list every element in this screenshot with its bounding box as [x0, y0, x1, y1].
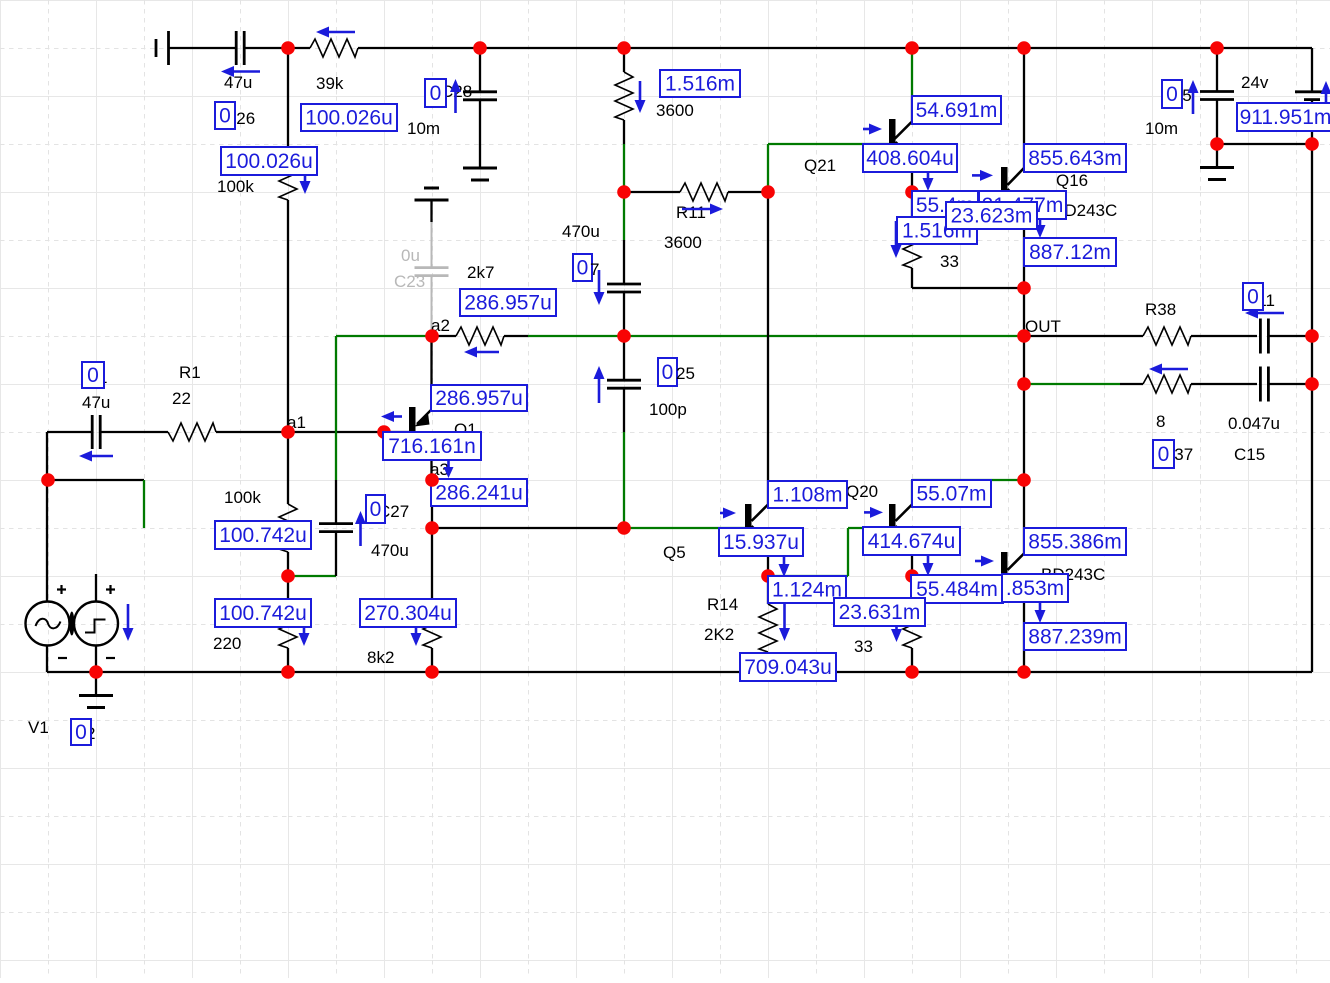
junction bottom rail / 8k2 [425, 665, 439, 679]
wire Q21 emitter to node [911, 158, 913, 192]
green wire stub [143, 480, 145, 528]
current arrow 270.304u 8k2 [411, 605, 422, 646]
transistor Q5 bar [745, 504, 752, 527]
resistor R37 8 body [1143, 375, 1191, 393]
battery B1 plates (input stub) [156, 31, 169, 65]
current arrow Q16 emitter [1035, 213, 1046, 238]
wire C5 node to battery node [1217, 143, 1312, 145]
measurement box 286.957u (2k7) [460, 289, 556, 316]
measurement box 0 of C27 [366, 495, 385, 523]
wire node to C28 [479, 48, 481, 92]
wire C11 to right rail [1269, 335, 1312, 337]
wire C7 bottom to node [623, 292, 625, 336]
green wire node down to Q21 collector [911, 48, 913, 97]
wire Q1 emitter up to node a2 [430, 336, 432, 409]
svg-text:0: 0 [1166, 83, 1178, 106]
wire node down to 8k2 [431, 528, 433, 600]
current arrow Q20 base [864, 507, 883, 518]
svg-text:0u: 0u [401, 246, 420, 265]
transistor Q20 collector diagonal [896, 505, 913, 522]
svg-text:2k7: 2k7 [467, 263, 494, 282]
svg-text:Q5: Q5 [663, 543, 686, 562]
wire 100k upper to node a1 [287, 200, 289, 432]
wire 33 upper lead [911, 268, 913, 288]
wire ground to C23 [430, 200, 432, 222]
wire node to R11 [624, 191, 680, 193]
svg-text:3600: 3600 [656, 101, 694, 120]
junction node 3600/R11 [617, 185, 631, 199]
transistor Q4 BD243C bar [1001, 552, 1008, 575]
measurement box 100.026u (100k) [221, 147, 317, 175]
wire node down to Q5 collector [767, 192, 769, 504]
resistor 100k upper body [279, 152, 297, 200]
measurement box 100.742u (100k) [215, 521, 311, 549]
wire a3 to node [431, 480, 433, 528]
junction Q21 emitter [905, 185, 919, 199]
svg-text:23.623m: 23.623m [951, 205, 1033, 228]
current arrow 33 lower [891, 605, 902, 642]
current arrow C28 [450, 79, 461, 113]
junction top rail / 3600 [617, 41, 631, 55]
green wire feedback long to OUT [624, 335, 1024, 337]
junction feedback / C7 [617, 329, 631, 343]
transistor Q21 bar [889, 119, 896, 143]
svg-text:855.643m: 855.643m [1028, 147, 1121, 170]
svg-text:470u: 470u [371, 541, 409, 560]
green wire node to C27 [288, 575, 336, 577]
junction top rail / 100k [281, 41, 295, 55]
overlap blob between V1 circles [69, 612, 74, 636]
node OUT [1017, 329, 1031, 343]
wire node to R14 [767, 576, 769, 604]
resistor R14 2K2 body [759, 604, 777, 652]
transistor Q16 emitter diagonal (hidden) [1008, 189, 1025, 206]
svg-text:55.07m: 55.07m [916, 483, 986, 506]
wire a2 to 2k7 [432, 335, 456, 337]
wire node to C25 top [623, 336, 625, 380]
junction Q5 base [617, 521, 631, 535]
wire 33 lower to bottom rail [911, 648, 913, 672]
green wire node down segment [623, 192, 625, 240]
svg-text:286.241u: 286.241u [435, 482, 523, 505]
wire 8k2 to bottom rail [431, 648, 433, 672]
current arrow Q21 emitter [923, 168, 934, 191]
transistor Q20 bar [889, 504, 896, 527]
svg-text:R14: R14 [707, 595, 738, 614]
measurement box 55.4m [912, 191, 978, 219]
svg-text:8: 8 [1156, 412, 1165, 431]
wire node to OUT node [1023, 288, 1025, 336]
svg-text:414.674u: 414.674u [868, 530, 956, 553]
current arrow input cap 47u [79, 451, 113, 462]
measurement box 709.043u [740, 653, 836, 681]
wire node to C5 [1216, 48, 1218, 92]
svg-text:8k2: 8k2 [367, 648, 394, 667]
green wire feedback vertical [335, 336, 337, 480]
svg-text:24v: 24v [1241, 73, 1269, 92]
wire C26 to node V+A [245, 47, 311, 49]
junction a1 [281, 425, 295, 439]
transistor Q20 emitter diagonal (hidden) [896, 526, 913, 542]
current arrow Q4 base [975, 556, 994, 567]
svg-text:Q16: Q16 [1056, 171, 1088, 190]
wire node to green stub corner [48, 479, 144, 481]
measurement box 21.477m [979, 191, 1066, 219]
svg-text:R38: R38 [1145, 300, 1176, 319]
wire to C7 top [623, 240, 625, 284]
wire C28 to ground [479, 100, 481, 168]
current arrow 39k [316, 27, 355, 38]
wire pulse bottom lead [95, 646, 97, 673]
svg-text:270.304u: 270.304u [364, 602, 452, 625]
source V1 sine circle [26, 602, 70, 646]
current arrow R14 [779, 604, 790, 641]
junction Q5 emitter [761, 569, 775, 583]
svg-text:10m: 10m [407, 119, 440, 138]
wire Q1 collector down to node a3 [430, 434, 432, 480]
svg-text:0: 0 [75, 721, 87, 744]
minus sign pulse source [106, 657, 115, 659]
svg-text:3600: 3600 [664, 233, 702, 252]
svg-text:0: 0 [219, 105, 231, 128]
svg-text:Q20: Q20 [846, 482, 878, 501]
capacitor C? 47u (input) [91, 415, 94, 449]
measurement box 55.484m [911, 575, 1003, 603]
wire 47u cap to R1 [100, 431, 168, 433]
measurement box 0 of C5 [1162, 80, 1182, 108]
junction R11/Q21 base [761, 185, 775, 199]
wire node to Q4 collector [1023, 480, 1025, 553]
svg-text:408.604u: 408.604u [866, 147, 954, 170]
svg-text:0: 0 [1247, 286, 1259, 309]
green wire Q21 base [768, 143, 889, 145]
wire right rail top to battery V2 [1311, 48, 1313, 92]
wire R14 to bottom rail [767, 652, 769, 672]
source V1 pulse circle [74, 602, 118, 646]
transistor Q1 emitter diagonal with arrow [415, 410, 432, 427]
junction Q1 base [377, 425, 391, 439]
measurement box 1.108m [768, 481, 847, 508]
svg-text:15.937u: 15.937u [723, 531, 799, 554]
current arrow Q4 emitter [1035, 600, 1046, 623]
wire battery to C26 [169, 47, 236, 49]
svg-text:0: 0 [662, 361, 674, 384]
green wire 3600 to node [623, 144, 625, 192]
capacitor C28 10m [463, 90, 497, 93]
wire node down [1023, 384, 1025, 480]
svg-text:V1: V1 [28, 718, 49, 737]
green wire Q20 collector up (hidden) [911, 480, 913, 504]
svg-text:55.484m: 55.484m [916, 578, 998, 601]
svg-text:470u: 470u [562, 222, 600, 241]
current arrow R37 [1149, 364, 1188, 375]
svg-text:100.026u: 100.026u [305, 107, 393, 130]
wire node to R 3600 top [623, 48, 625, 72]
wire R38 to C11 [1191, 335, 1257, 337]
current arrow battery V2 [1321, 81, 1330, 114]
resistor 3600 (top) body [615, 72, 633, 120]
wire sine bottom lead [46, 646, 48, 673]
current arrow Q20 emitter [923, 553, 934, 576]
measurement box 0 of R37 [1153, 440, 1174, 468]
resistor R? 39k body [310, 39, 358, 57]
wire Q5 emitter to node [767, 542, 769, 576]
svg-text:0.047u: 0.047u [1228, 414, 1280, 433]
svg-text:0: 0 [430, 82, 442, 105]
junction bottom rail / 33 [905, 665, 919, 679]
plus sign pulse source [106, 585, 115, 594]
svg-text:Q21: Q21 [804, 156, 836, 175]
node a3 (drawn over box) [425, 473, 439, 487]
capacitor C26 47u [235, 31, 238, 65]
measurement box 270.304u [360, 599, 456, 627]
wire R11 to node [728, 191, 768, 193]
current arrow C7 [594, 270, 605, 305]
svg-text:220: 220 [213, 634, 241, 653]
source V1 sine waveform glyph [36, 619, 61, 629]
transistor Q21 emitter diagonal (hidden) [896, 142, 913, 158]
current arrow C25 [594, 366, 605, 403]
svg-text:7: 7 [590, 260, 599, 279]
wire battery V2 to node [1311, 100, 1313, 144]
current arrow C5 [1188, 80, 1199, 114]
junction output row [1017, 377, 1031, 391]
svg-text:100.026u: 100.026u [225, 150, 313, 173]
wire node to R 33 upper (hidden) [911, 192, 913, 220]
junction battery V2 [1305, 137, 1319, 151]
wire Q16 base (hidden) [912, 191, 1001, 193]
green wire base node vertical [767, 144, 769, 192]
measurement box 0 of C28 [425, 79, 446, 107]
capacitor C23 0u (disabled, gray) [431, 222, 433, 268]
transistor Q5 collector diagonal [752, 505, 769, 522]
svg-text:0: 0 [1158, 443, 1170, 466]
wire 2k7 to green [504, 335, 528, 337]
wire node to node (Q5 base row) [432, 527, 624, 529]
current arrow Q5 emitter [779, 554, 790, 577]
wire a1 to 100k lower [287, 432, 289, 504]
current arrow V1 [123, 604, 134, 641]
junction top rail / Q16 [1017, 41, 1031, 55]
wire pulse top stub [95, 574, 97, 602]
capacitor C11 [1259, 319, 1262, 354]
current arrow Q16 base [972, 170, 993, 181]
transistor Q21 collector diagonal [895, 122, 912, 139]
measurement box 15.937u [719, 528, 803, 556]
capacitor C15 0.047u [1259, 367, 1262, 402]
svg-text:887.12m: 887.12m [1029, 241, 1111, 264]
svg-text:10m: 10m [1145, 119, 1178, 138]
junction top rail / Q21 [905, 41, 919, 55]
wire corner down to node [46, 432, 48, 480]
wire bottom rail [47, 671, 1312, 673]
resistor 100k lower body [279, 504, 297, 552]
measurement box 0 of C7 [573, 254, 592, 281]
resistor R38 body [1143, 327, 1191, 345]
green wire a2 left [336, 335, 432, 337]
measurement box 887.12m [1024, 238, 1116, 266]
measurement box .853m [1002, 574, 1068, 602]
measurement box 0 of C11 [1243, 283, 1263, 310]
junction bottom rail / R14 (hidden) [761, 665, 775, 679]
current arrow 2k7 [464, 347, 499, 358]
wire 100k lower to node [287, 552, 289, 576]
measurement box 100.742u (220) [215, 599, 311, 627]
wire green to R37 [1120, 383, 1143, 385]
svg-text:22: 22 [172, 389, 191, 408]
wire 33 upper corner to node [912, 287, 1024, 289]
measurement box 0 of C25 [658, 358, 677, 386]
measurement box 716.161n [383, 432, 481, 460]
svg-text:39k: 39k [316, 74, 344, 93]
junction bottom rail / V1 [89, 665, 103, 679]
junction left column [41, 473, 55, 487]
wire OUT node down [1023, 336, 1025, 384]
wire top rail 39k to right corner [358, 47, 1312, 49]
measurement box 1.124m [768, 576, 846, 603]
resistor R1 22 body [168, 423, 216, 441]
current arrow C27 [355, 511, 366, 546]
current arrow Q1 base [381, 411, 402, 422]
svg-text:23.631m: 23.631m [839, 601, 921, 624]
wire 3600 lower lead [623, 120, 625, 144]
wire pulse node to ground [95, 672, 97, 696]
ground (inverted) above C23 [424, 187, 439, 190]
battery V2 24v plates [1295, 92, 1329, 100]
measurement box 855.386m [1024, 528, 1126, 555]
wire node to R 33 lower [911, 576, 913, 600]
transistor Q16 bar [1001, 167, 1008, 190]
current arrow Q5 base [720, 508, 736, 519]
capacitor C7 470u [607, 283, 641, 286]
current arrow 33 upper [891, 221, 902, 258]
measurement box 54.691m [912, 96, 1001, 124]
svg-text:286.957u: 286.957u [435, 387, 523, 410]
junction 100k/220 [281, 569, 295, 583]
wire C27 bottom [335, 532, 337, 576]
resistor 33 upper body [903, 220, 921, 268]
wire node down to Q16 collector [1023, 48, 1025, 168]
junction bottom rail / 220 [281, 665, 295, 679]
svg-text:1.108m: 1.108m [772, 484, 842, 507]
junction bottom rail / Q4 [1017, 665, 1031, 679]
measurement box 0 of input cap [82, 362, 104, 388]
wire Q4 base (hidden) [912, 575, 1001, 577]
wire node to R 220 [287, 576, 289, 600]
svg-text:54.691m: 54.691m [916, 99, 998, 122]
junction right rail / C11 [1305, 329, 1319, 343]
svg-text:100p: 100p [649, 400, 687, 419]
measurement box 0 of C26 [215, 102, 235, 129]
measurement box 414.674u [863, 527, 960, 555]
measurement box 23.623m [946, 202, 1037, 229]
svg-text:OUT: OUT [1025, 317, 1061, 336]
svg-text:709.043u: 709.043u [744, 656, 832, 679]
svg-text:286.957u: 286.957u [464, 292, 552, 315]
ground below C5 [1200, 166, 1234, 169]
wire right rail down [1311, 144, 1313, 672]
wire C5 node to ground [1216, 144, 1218, 168]
measurement box 100.026u (39k) [301, 104, 397, 131]
wire C15 to right rail [1269, 383, 1312, 385]
wire C5 to node [1216, 100, 1218, 145]
svg-text:1.124m: 1.124m [772, 579, 842, 602]
measurement box 286.957u (Q1) [431, 385, 527, 411]
current arrow Q1 collector a3 [444, 457, 454, 478]
capacitor C5 10m [1200, 90, 1234, 93]
junction a2 [425, 329, 439, 343]
svg-text:R11: R11 [676, 203, 706, 222]
current arrow R11 [682, 204, 723, 215]
svg-text:100.742u: 100.742u [219, 602, 307, 625]
minus sign sine source [58, 657, 67, 659]
svg-text:47u: 47u [82, 393, 110, 412]
svg-text:0: 0 [370, 498, 382, 521]
transistor Q1 base bar [409, 407, 416, 431]
svg-text:R1: R1 [179, 363, 201, 382]
resistor 8k2 body [423, 600, 441, 648]
wire node down to source V1 [46, 480, 48, 602]
svg-text:100.742u: 100.742u [219, 524, 307, 547]
svg-text:911.951m: 911.951m [1240, 106, 1330, 129]
junction C5 ground [1210, 137, 1224, 151]
resistor 2k7 body [456, 327, 504, 345]
wire Q16 emitter down to node [1023, 206, 1025, 288]
green wire Q5 emitter to Q20 base (hidden) [768, 575, 848, 577]
wire R1 to node a1 [216, 431, 288, 433]
wire node to R 100k upper [287, 48, 289, 152]
wire to C27 top [335, 480, 337, 524]
measurement box 1.516m (33) [897, 217, 977, 244]
wire Q21 collector segment (hidden) [911, 97, 913, 122]
measurement box 1.516m (3600) [660, 70, 740, 97]
wire 220 to bottom rail [287, 648, 289, 672]
measurement box 0 of V1 [71, 719, 91, 745]
current arrow C11 [1245, 308, 1284, 319]
svg-text:855.386m: 855.386m [1028, 531, 1121, 554]
capacitor C27 470u [319, 522, 353, 525]
current arrow Q21 base [863, 124, 882, 135]
svg-text:100k: 100k [224, 488, 261, 507]
transistor Q16 collector diagonal [1008, 168, 1025, 185]
wire R37 to C15 [1191, 383, 1257, 385]
green wire node to R37 [1024, 383, 1120, 385]
svg-text:2K2: 2K2 [704, 625, 734, 644]
junction top rail / C5 [1210, 41, 1224, 55]
green wire 2k7 to node [528, 335, 624, 337]
svg-text:100k: 100k [217, 177, 254, 196]
junction a3 / Q5 base row [425, 521, 439, 535]
svg-text:887.239m: 887.239m [1028, 626, 1121, 649]
wire Q4 emitter to bottom rail [1023, 590, 1025, 672]
measurement box 855.643m [1024, 144, 1126, 172]
green wire Q20 collector to node [912, 479, 1024, 481]
wire corner to C? 47u [47, 431, 93, 433]
current arrow 3600 top [635, 81, 646, 113]
transistor Q4 collector diagonal [1008, 554, 1025, 571]
measurement box 55.07m [912, 480, 991, 507]
junction Q20 collector [1017, 473, 1031, 487]
current arrow 100k lower [299, 605, 310, 646]
measurement box 911.951m [1237, 103, 1330, 131]
svg-text:47u: 47u [224, 73, 252, 92]
measurement box 286.241u [431, 479, 527, 506]
junction right rail / C15 [1305, 377, 1319, 391]
measurement box 408.604u [863, 144, 957, 172]
junction Q20 emitter [905, 569, 919, 583]
measurement box 23.631m [834, 598, 925, 626]
svg-text:25: 25 [676, 364, 695, 383]
